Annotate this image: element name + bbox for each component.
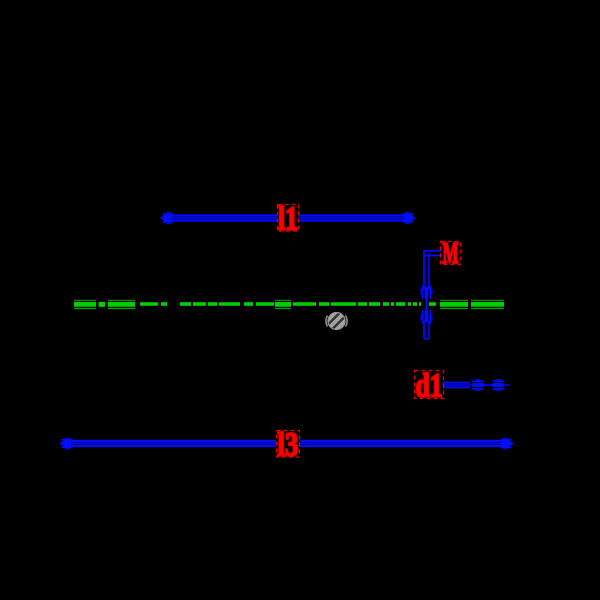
dimension line l3 bbox=[63, 441, 510, 446]
arrowhead M up bbox=[421, 307, 432, 324]
label d1 bbox=[416, 368, 443, 405]
dimension line M vertical bbox=[424, 250, 429, 339]
arrowhead M down bbox=[421, 286, 432, 303]
centerline bbox=[74, 300, 504, 308]
label d1 box bbox=[415, 371, 444, 399]
arrowhead d1 left bbox=[490, 380, 505, 391]
dimension line l1 bbox=[164, 216, 412, 221]
label l1 box bbox=[278, 205, 299, 232]
svg-text:l3: l3 bbox=[278, 427, 299, 464]
label l3 box bbox=[277, 431, 300, 458]
label l1 bbox=[278, 201, 298, 238]
label M bbox=[443, 235, 459, 270]
svg-text:l1: l1 bbox=[278, 201, 298, 238]
arrowhead l3 left bbox=[59, 438, 73, 449]
dimension line M bottom cap bbox=[424, 338, 430, 340]
hatched circle marker bbox=[326, 311, 348, 335]
svg-text:M: M bbox=[443, 235, 459, 270]
arrowhead d1 right bbox=[472, 380, 487, 391]
arrowhead l3 right bbox=[501, 438, 515, 449]
centerline thin dashes bbox=[140, 302, 436, 306]
centerline bold dashes bbox=[74, 300, 504, 308]
svg-text:d1: d1 bbox=[416, 368, 443, 405]
label M box bbox=[441, 242, 461, 265]
arrowhead l1 right bbox=[403, 213, 417, 224]
label l3 bbox=[278, 427, 299, 464]
leader M horizontal bbox=[425, 251, 442, 256]
arrowhead l1 left bbox=[160, 213, 174, 224]
dimension line d1 bbox=[443, 383, 509, 388]
